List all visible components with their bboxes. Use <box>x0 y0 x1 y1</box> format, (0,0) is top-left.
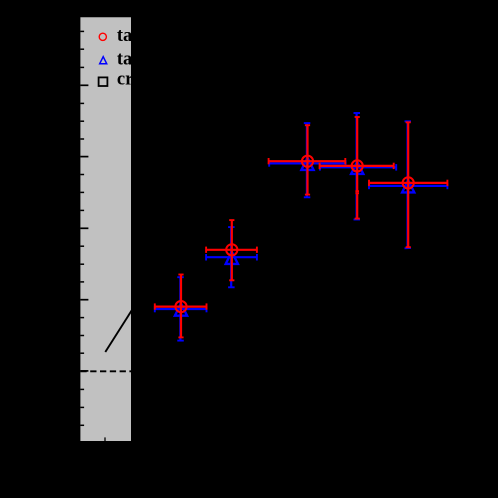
svg-text:tagged: tagged <box>117 49 170 69</box>
svg-text:tagged: tagged <box>117 26 170 46</box>
svg-text:cross: cross <box>117 69 157 89</box>
